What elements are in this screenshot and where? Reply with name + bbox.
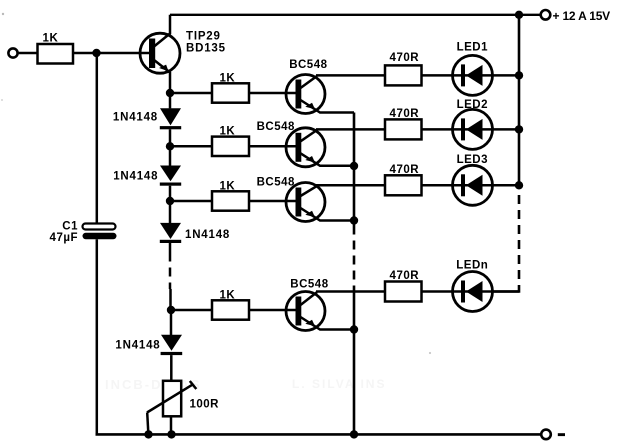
wire right bus corner to LEDn row <box>493 285 520 292</box>
svg-text:47µF: 47µF <box>50 232 78 244</box>
wire chain dashed continuation <box>169 253 172 290</box>
node junction LED1 / right bus <box>515 71 523 79</box>
resistor 1K stage3 <box>212 180 249 210</box>
wire pot to bottom rail <box>170 417 173 435</box>
svg-text:1K: 1K <box>219 180 235 192</box>
wire D3 short solid <box>169 243 172 253</box>
potentiometer 100R <box>147 381 219 435</box>
wire R-in to base TIP29 <box>73 52 150 55</box>
wire junction2 to D2 <box>169 146 172 165</box>
LED LED1 <box>453 42 493 96</box>
svg-text:BC548: BC548 <box>257 121 295 133</box>
svg-text:BC548: BC548 <box>290 278 328 290</box>
capacitor C1 47uF <box>50 221 117 245</box>
resistor 1K stage2 <box>212 126 249 157</box>
LED LEDn <box>453 259 493 311</box>
wire collector row stage2 <box>316 128 385 131</box>
node input terminal <box>8 48 17 57</box>
wire emitter bus dashed continuation <box>353 226 356 289</box>
node junction pot / rail <box>167 430 175 438</box>
wire input to R-in <box>18 52 38 55</box>
wire junction4 to D4 <box>170 310 173 335</box>
wire R to base Q2 <box>249 92 296 95</box>
svg-text:470R: 470R <box>390 270 420 282</box>
svg-text:1K: 1K <box>219 72 235 84</box>
transistor Q2 BC548 <box>286 59 354 113</box>
wire R to base Q5 <box>249 309 296 312</box>
svg-text:L. SILVA INS: L. SILVA INS <box>292 377 386 391</box>
wire tap to R base stage4 <box>171 309 212 312</box>
diode D4 1N4148 <box>115 335 182 355</box>
svg-text:1N4148: 1N4148 <box>113 112 158 124</box>
wire D1 to junction 2 <box>169 129 172 146</box>
svg-text:470R: 470R <box>390 164 420 176</box>
wire top supply rail <box>170 14 541 16</box>
node junction stage4 tap <box>167 306 175 314</box>
diode D3 1N4148 <box>160 223 230 243</box>
svg-text:1N4148: 1N4148 <box>115 340 160 352</box>
resistor 470R stage2 <box>385 108 422 139</box>
diode D1 1N4148 <box>113 108 181 129</box>
resistor 1K stage1 <box>212 72 249 102</box>
wire tap to R base stage2 <box>170 145 212 148</box>
transistor Q3 BC548 <box>257 121 354 167</box>
svg-text:100R: 100R <box>190 399 220 411</box>
svg-text:LEDn: LEDn <box>456 259 488 271</box>
wire chain solid to junction 4 <box>169 289 172 310</box>
node bus junction stage3 emitter <box>350 216 358 224</box>
wire 470R to LED3 <box>422 184 520 187</box>
node junction stage3 tap <box>166 197 174 205</box>
svg-text:+ 12 A 15V: + 12 A 15V <box>553 9 611 23</box>
svg-text:LED2: LED2 <box>457 99 488 111</box>
svg-text:1K: 1K <box>219 126 235 138</box>
node junction emitter bus / rail <box>350 430 358 438</box>
svg-text:BC548: BC548 <box>257 176 295 188</box>
resistor 470R stage4 <box>385 270 422 302</box>
wire emitter bus solid upper <box>353 113 356 226</box>
node junction LED2 / right bus <box>515 125 523 133</box>
svg-text:1N4148: 1N4148 <box>185 229 230 241</box>
resistor 1K stage4 <box>212 289 249 319</box>
node +V terminal <box>541 9 610 23</box>
wire D4 to pot <box>170 355 173 381</box>
svg-text:INCB-DICAS: INCB-DICAS <box>105 377 202 392</box>
wire junction down to C1 <box>96 53 99 224</box>
node junction LED3 / right bus <box>515 181 523 189</box>
wire right bus solid <box>518 15 521 186</box>
transistor Q4 BC548 <box>257 176 354 221</box>
wire tap to R base stage3 <box>170 200 212 203</box>
wire collector row stage3 <box>316 184 385 187</box>
wire C1 to bottom rail <box>96 239 99 434</box>
diode D2 1N4148 <box>113 166 181 186</box>
svg-text:LED1: LED1 <box>457 42 489 54</box>
svg-text:TIP29: TIP29 <box>186 31 221 43</box>
node junction pot wiper / rail <box>144 430 152 438</box>
svg-text:LED3: LED3 <box>457 154 488 166</box>
transistor Q1 TIP29/BD135 <box>140 15 226 93</box>
wire right bus dashed continuation <box>518 195 521 285</box>
svg-text:BC548: BC548 <box>289 59 327 71</box>
svg-text:470R: 470R <box>390 108 420 120</box>
LED LED2 <box>453 99 493 149</box>
transistor Q5 BC548 <box>286 278 354 330</box>
svg-text:BD135: BD135 <box>186 43 226 55</box>
wire collector row stage4 <box>316 290 385 293</box>
resistor 1K input <box>38 33 74 64</box>
node junction stage2 tap <box>166 142 174 150</box>
svg-text:1K: 1K <box>43 33 59 45</box>
wire 470R to LED2 <box>422 128 520 131</box>
wire emitter junction to D1 <box>169 93 172 108</box>
svg-text:C1: C1 <box>62 221 78 233</box>
resistor 470R stage1 <box>385 52 422 85</box>
svg-text:470R: 470R <box>390 52 420 64</box>
node minus terminal <box>541 430 565 440</box>
node junction emitter / chain <box>166 89 174 97</box>
wire 470R to LEDn <box>422 290 520 293</box>
wire 470R to LED1 <box>422 74 520 77</box>
wire bottom rail <box>96 433 542 436</box>
wire emitter bus solid lower <box>353 288 356 434</box>
svg-text:1K: 1K <box>219 289 235 301</box>
node junction top rail / right bus <box>515 11 523 19</box>
node bus junction stage2 emitter <box>350 162 358 170</box>
wire R to base Q4 <box>249 200 296 203</box>
resistor 470R stage3 <box>385 164 422 195</box>
node bus junction stage4 emitter <box>350 325 358 333</box>
wire collector row stage1 <box>316 74 385 77</box>
LED LED3 <box>453 154 493 205</box>
wire R to base Q3 <box>249 145 296 148</box>
wire junction3 to D3 <box>169 201 172 223</box>
wire D2 to junction 3 <box>169 186 172 201</box>
wire tap to R base stage1 <box>170 92 212 95</box>
node junction input/C1 <box>92 49 100 57</box>
svg-text:1N4148: 1N4148 <box>113 170 158 182</box>
